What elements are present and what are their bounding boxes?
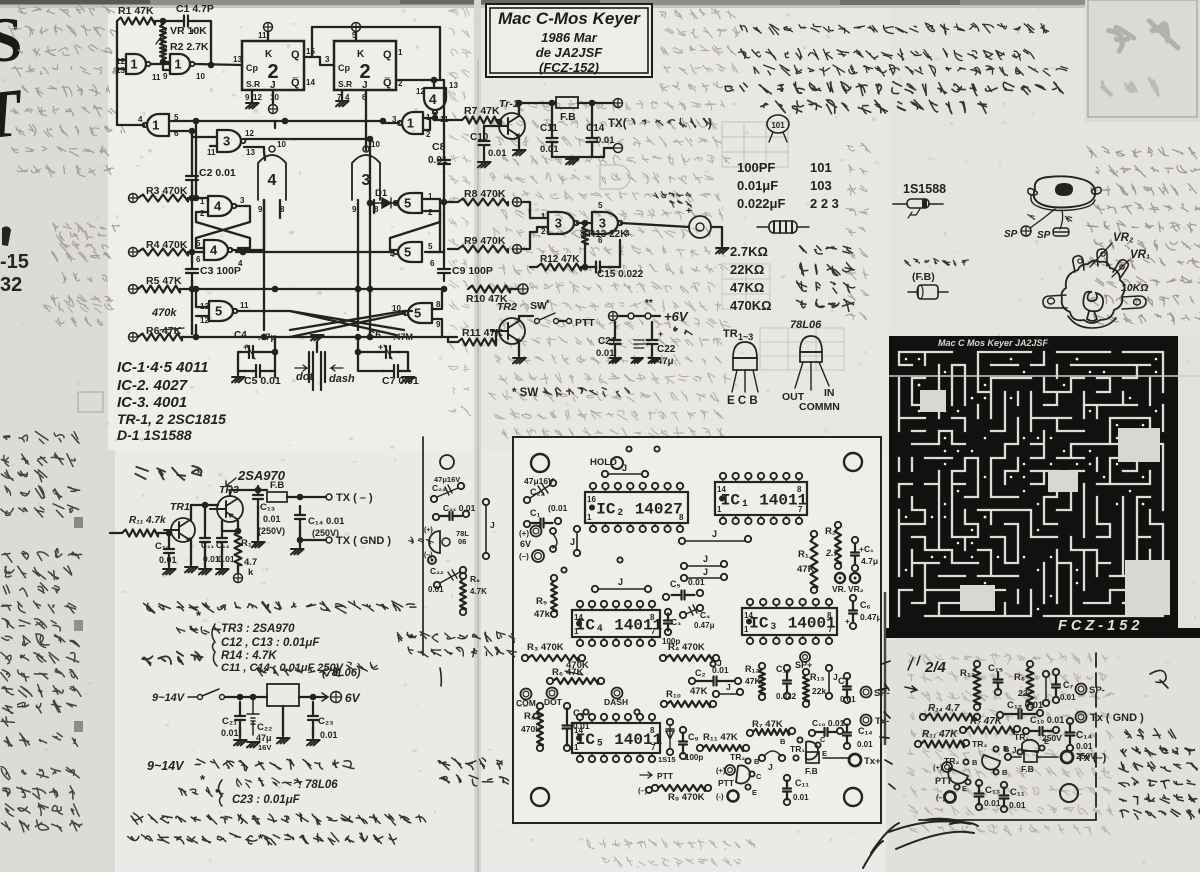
svg-text:101: 101 [771,121,785,130]
svg-text:2: 2 [426,130,431,139]
wire 6V rail [618,315,628,317]
svg-text:470k: 470k [151,307,177,319]
svg-text:12: 12 [416,87,425,96]
svg-text:0.01: 0.01 [1009,800,1026,810]
svg-text:1986 Mar: 1986 Mar [541,30,598,45]
svg-text:COMMN: COMMN [799,401,840,413]
svg-text:TX ( GND ): TX ( GND ) [336,535,391,547]
svg-text:7: 7 [798,505,803,514]
svg-text:C15 0.022: C15 0.022 [597,269,644,280]
svg-text:Tx ( GND ): Tx ( GND ) [1090,712,1144,724]
svg-text:100p: 100p [685,753,703,762]
resistor drawing with bands [757,226,809,228]
FF2 top pin terminal [355,32,357,41]
svg-text:10: 10 [392,304,401,313]
resistor R4 470K [129,248,138,257]
wire bus y121 [171,120,383,122]
svg-text:C₁: C₁ [530,508,540,518]
svg-text:R₄ 470K: R₄ 470K [668,642,705,653]
jumper J b [681,575,687,581]
svg-text:15: 15 [306,47,315,56]
svg-text:SP-: SP- [1089,685,1105,696]
FF1 top pin terminal [267,32,269,41]
svg-text:IC-3. 4001: IC-3. 4001 [117,394,187,411]
svg-text:Mac C-Mos Keyer: Mac C-Mos Keyer [498,9,641,28]
svg-text:C: C [756,772,762,781]
svg-text:(–): (–) [519,552,529,561]
TX- pad [861,715,872,726]
svg-text:1: 1 [541,212,546,221]
capacitor C3 100p [665,609,671,615]
svg-text:100PF: 100PF [737,160,775,175]
svg-text:5: 5 [215,304,222,319]
svg-text:10: 10 [277,140,286,149]
svg-text:0.01: 0.01 [1060,693,1076,702]
svg-text:F.B: F.B [1021,764,1034,774]
svg-text:Q: Q [383,49,392,61]
right column show-through paragraph [1087,147,1196,159]
svg-text:10: 10 [270,93,279,102]
wire R3 node up [195,121,197,198]
pads row mid [561,567,566,572]
svg-text:R1 47K: R1 47K [118,5,154,17]
jumper fig4 [1005,754,1011,760]
NAND gate IC5d mirrored [404,303,432,323]
NAND gate IC4b tall [269,146,275,152]
pcb white blocks [920,390,1170,615]
capacitor C13b [976,780,982,786]
wire bus y337 [182,325,196,337]
wire FF2 Qbar to gate4 [396,79,434,81]
ground C7 [402,377,415,382]
svg-text:E C B: E C B [727,395,758,407]
svg-text:C11: C11 [540,123,558,134]
wire x370 vertical down [369,203,371,337]
svg-text:R₁₁ 4.7k: R₁₁ 4.7k [129,515,166,526]
wire gate3a out 12 right [244,138,370,140]
NAND gate IC5b mirrored [394,193,422,213]
svg-text:VR₂: VR₂ [1113,232,1134,244]
svg-text:9: 9 [352,205,357,214]
wire gate1c inputs from right [423,117,435,119]
jumper J vertical [574,526,580,532]
cross-coupling wires latch1 [196,206,250,248]
svg-text:(+): (+) [933,763,943,772]
svg-text:SP: SP [1037,230,1051,241]
capacitor C8 0.01 [434,80,444,153]
svg-text:DOT: DOT [544,697,563,707]
svg-text:4: 4 [429,91,437,107]
svg-text:C₆: C₆ [860,600,871,610]
wire gate3a out 13 down [244,147,264,152]
svg-text:(+): (+) [716,766,726,775]
svg-text:C₁₄ 0.01: C₁₄ 0.01 [308,516,345,527]
svg-text:1~3: 1~3 [738,332,753,342]
NAND gate IC1c mirrored [398,112,423,134]
svg-text:* SW: * SW [512,387,538,399]
svg-text:3: 3 [325,55,330,64]
svg-text:K: K [357,49,365,60]
wire FF1 Q top bus [312,27,440,80]
TR TO-92 drawing [733,342,757,358]
svg-text:9: 9 [258,205,263,214]
jumper J vert [826,665,832,671]
wire TR1 emitter ground [518,136,520,148]
flip-flop IC2b 4027 [334,41,396,90]
wire IC5d pins to buses [432,290,442,309]
svg-text:C₅: C₅ [670,579,681,589]
svg-text:.47μ: .47μ [258,332,276,342]
svg-text:0.01: 0.01 [159,555,177,565]
svg-text:R13 22K: R13 22K [588,229,628,240]
svg-text:R₃ 470K: R₃ 470K [527,642,564,653]
svg-text:C4: C4 [234,330,247,341]
svg-text:TX ( – ): TX ( – ) [336,492,373,504]
svg-text:C₂₂: C₂₂ [257,722,272,733]
terminal TX minus [614,144,623,153]
svg-text:0.47μ: 0.47μ [694,621,715,630]
SP+ pad [800,652,810,662]
svg-text:10: 10 [371,140,380,149]
svg-text:0.01: 0.01 [596,135,615,146]
svg-text:9: 9 [245,93,250,102]
regulator caption [257,667,341,676]
svg-text:0.01: 0.01 [221,728,239,738]
svg-text:C₃: C₃ [671,617,681,627]
jumper fig6 [483,499,489,505]
svg-text:B: B [780,737,786,746]
wires C4/C5 loop [238,352,246,371]
svg-text:0.01: 0.01 [540,144,559,155]
wire mid bus y289 [180,288,444,290]
svg-text:22KΩ: 22KΩ [730,262,764,277]
VR bottom arc [1068,316,1116,328]
svg-text:13: 13 [246,148,255,157]
svg-text:06: 06 [458,537,466,546]
wire pin6 to gate3 [171,130,192,132]
left column printed text [4,432,80,444]
top small pads [626,446,631,451]
svg-text:(F.B): (F.B) [912,271,935,283]
NAND gate IC1b [170,54,194,74]
svg-text:4: 4 [138,115,143,124]
svg-text:6: 6 [430,259,435,268]
svg-text:J: J [717,658,722,668]
svg-text:0.01: 0.01 [1076,741,1093,751]
VR VR2 pads [835,573,845,583]
jumper J arc [759,755,765,761]
svg-text:C12 , C13 : 0.01μF: C12 , C13 : 0.01μF [221,637,320,649]
svg-text:13: 13 [449,81,458,90]
svg-text:9~14V: 9~14V [152,692,186,704]
svg-text:16V: 16V [258,743,271,752]
svg-text:6V: 6V [520,539,531,549]
svg-text:Q̅: Q̅ [383,77,392,89]
svg-text:0.01: 0.01 [218,554,235,564]
svg-text:IC-1·4·5 4011: IC-1·4·5 4011 [117,359,208,376]
svg-text:14: 14 [574,613,583,622]
jumper J a [681,563,687,569]
svg-text:2/4: 2/4 [924,659,947,676]
svg-text:7: 7 [651,627,656,636]
svg-text:5: 5 [404,245,411,260]
svg-text:Tx (–): Tx (–) [1077,752,1107,764]
VR lugs [1073,249,1128,277]
svg-text:103: 103 [810,178,832,193]
svg-text:C₁₃: C₁₃ [260,502,275,513]
svg-text:Q: Q [291,49,300,61]
svg-text:C₁₄: C₁₄ [858,726,873,736]
capacitor C11c [1001,782,1007,788]
svg-text:): ) [708,118,712,130]
wire IC5d out cross left [290,313,405,337]
svg-text:8: 8 [650,613,655,622]
fold line center [474,0,481,872]
resistor R9 470K [652,785,658,791]
svg-text:7: 7 [828,625,833,634]
svg-text:3: 3 [223,134,230,149]
svg-text:PTT: PTT [718,778,735,788]
svg-text:22k: 22k [812,686,826,696]
svg-text:R2 2.7K: R2 2.7K [170,41,209,53]
svg-text:E: E [1003,744,1008,753]
option note line2 [128,833,272,845]
svg-text:F.B: F.B [805,766,818,776]
svg-text:6: 6 [196,255,201,264]
svg-text:9: 9 [163,72,168,81]
wire gate1a out to gate1b [151,63,170,65]
svg-text:VR₂: VR₂ [848,584,864,594]
svg-text:R₇ 47K: R₇ 47K [970,716,1003,727]
buzzer label [653,192,691,199]
svg-text:R8 470K: R8 470K [464,188,506,200]
svg-text:0.01: 0.01 [984,798,1001,808]
wire buzzer to ground [711,227,722,246]
jumper J mid [679,538,685,544]
svg-text:TR1: TR1 [170,501,190,513]
IC1 14011 [715,482,807,515]
wire IC3b pins down [357,200,359,330]
pcb scratch line [889,375,1200,377]
svg-text:D-1 1S1588: D-1 1S1588 [117,427,192,443]
svg-text:C₁₃: C₁₃ [985,785,1000,796]
svg-text:2: 2 [200,209,205,218]
capacitor C14b vertical [1067,718,1073,724]
svg-text:Tx-: Tx- [875,716,889,727]
NAND gate IC1a [126,54,150,74]
svg-text:47K: 47K [690,686,708,697]
svg-text:J: J [726,682,731,692]
minus keying caption [144,601,416,613]
svg-text:C₄: C₄ [700,610,710,620]
ferrite bead label [905,259,969,266]
svg-text:0.01μF: 0.01μF [737,178,778,193]
fig4 bottom border [919,819,1096,821]
svg-text:R₉ 470K: R₉ 470K [668,792,705,803]
faint gate doodle [600,165,630,189]
svg-text:E: E [822,749,827,758]
svg-text:8: 8 [679,513,684,522]
TX+ pad [849,754,861,766]
svg-text:F.B: F.B [270,480,284,491]
line5 (larger) [761,100,987,114]
svg-text:C₂₁ 0.01: C₂₁ 0.01 [443,503,476,513]
svg-text:2: 2 [428,208,433,217]
svg-text:C14: C14 [586,123,605,134]
svg-text:0.47μ: 0.47μ [860,612,882,622]
svg-text:1: 1 [574,627,579,636]
svg-text:Tx+: Tx+ [864,756,881,767]
fig4 annotation lines [1125,729,1176,739]
svg-text:PTT: PTT [657,771,674,781]
wires C6/C7 loop [358,351,378,353]
svg-text:C2 0.01: C2 0.01 [199,167,236,179]
svg-text:101: 101 [810,160,832,175]
ground rail TX [552,156,592,158]
jumper J d [713,691,719,697]
terminal R3 [129,194,138,203]
svg-text:C₁₅: C₁₅ [988,663,1003,674]
gutter section markers [74,517,83,528]
svg-text:8: 8 [827,611,832,620]
svg-text:10: 10 [196,72,205,81]
svg-text:78L06: 78L06 [790,319,822,331]
SP- pad [861,687,872,698]
svg-text:(-): (-) [716,792,724,801]
capacitor C3 100p [191,252,193,262]
wire C1 to gate output [193,21,211,65]
svg-text:Q̅: Q̅ [291,77,300,89]
wire x275 vertical [274,121,276,128]
svg-text:(–): (–) [638,786,648,795]
svg-text:dash: dash [329,373,355,385]
svg-text:1: 1 [174,57,181,72]
IC3 14001 [742,608,837,635]
svg-text:R14 : 4.7K: R14 : 4.7K [221,650,277,662]
svg-text:2.7KΩ: 2.7KΩ [730,244,768,259]
svg-text:C₉: C₉ [688,732,699,742]
NAND gate IC1d mirrored left [143,114,169,136]
svg-text:12: 12 [253,93,262,102]
wire gate4 out down to R7 line [435,113,462,120]
svg-text:0.01: 0.01 [428,585,444,594]
svg-text:R₈: R₈ [524,711,535,722]
svg-text:S.R: S.R [246,79,260,89]
key paddle [311,335,324,340]
svg-text:IC₁ 14011: IC₁ 14011 [721,492,807,510]
svg-text:de JA2JSF: de JA2JSF [536,45,604,60]
NOR gate IC3b tall [363,146,369,152]
svg-text:8: 8 [797,485,802,494]
svg-text:3: 3 [240,196,245,205]
PTT terminals [725,765,735,775]
svg-text:F C Z - 1 5 2: F C Z - 1 5 2 [1058,618,1139,634]
svg-text:(250V): (250V) [312,528,339,538]
svg-text:11: 11 [240,301,249,310]
mid narrow show-through strip [847,143,871,153]
Q doodle [1150,670,1168,688]
svg-text:(78L06): (78L06) [322,667,361,679]
svg-text:R₁₄ 4.7: R₁₄ 4.7 [928,703,960,714]
svg-text:5: 5 [428,242,433,251]
wire gate3a in [192,131,217,137]
svg-text:SP: SP [1004,229,1018,240]
TX(GND) terminal [300,539,326,541]
capacitor C9 100p [443,252,445,262]
wire TR1 emitter [190,540,192,565]
switch fig5 [198,695,203,700]
svg-text:0.022μF: 0.022μF [737,196,785,211]
svg-text:DASH: DASH [604,697,628,707]
faded small box [78,392,103,412]
svg-text:4.7K: 4.7K [470,587,487,596]
aka label [1028,215,1035,220]
svg-text:470KΩ: 470KΩ [730,298,772,313]
svg-text:K: K [265,49,273,60]
regulator center pin gnd [282,706,284,736]
svg-text:1S1588: 1S1588 [903,182,946,196]
wire R1 left down to gate input [117,21,126,60]
svg-text:SW: SW [530,300,547,312]
svg-text:+: + [378,342,383,352]
svg-text:R7 47K: R7 47K [464,105,500,117]
svg-text:B: B [1002,768,1008,777]
svg-text:E: E [1044,737,1049,746]
ground C5 [232,377,245,382]
svg-text:(+): (+) [519,529,529,538]
svg-text:TR2: TR2 [497,301,517,313]
top-right note line1 [740,23,1048,35]
PTT pads fig4 [942,762,952,772]
svg-text:J: J [622,463,627,473]
svg-text:J: J [703,567,708,577]
VR body [1062,260,1125,323]
svg-text:12: 12 [200,316,209,325]
svg-text:C23 : 0.01μF: C23 : 0.01μF [232,794,301,806]
svg-text:1: 1 [200,197,205,206]
jumper J top [602,471,608,477]
kuro label [1065,216,1071,221]
svg-text:1: 1 [717,505,722,514]
wire IC4b pins down [263,200,265,330]
fig3 placement board outline [513,437,881,823]
svg-text:J: J [712,529,717,539]
svg-text:4: 4 [390,250,395,259]
svg-text:J: J [1012,746,1016,755]
svg-text:E: E [752,788,757,797]
svg-text:PTT: PTT [575,317,595,329]
fold shadow right [884,592,887,745]
svg-text:k: k [248,567,254,578]
svg-text:J: J [570,537,575,547]
svg-text:C₇: C₇ [1063,680,1073,690]
faint grid table [722,122,788,167]
speaker wires [1030,209,1063,229]
78L06 TO-92 drawing [800,336,822,352]
NAND gate IC4a vertical [424,88,446,114]
title box [486,4,652,77]
svg-text:8: 8 [650,726,655,735]
svg-text:R9 470K: R9 470K [464,235,506,247]
svg-text:VR.: VR. [832,584,846,594]
svg-text:S.R: S.R [338,79,352,89]
svg-text:IC-2. 4027: IC-2. 4027 [117,377,188,394]
svg-text:2 2 3: 2 2 3 [810,196,839,211]
wire gate1c out to bus [383,121,399,123]
jumper J [592,586,598,592]
fig6 border line [422,437,424,655]
svg-text:16: 16 [587,495,596,504]
